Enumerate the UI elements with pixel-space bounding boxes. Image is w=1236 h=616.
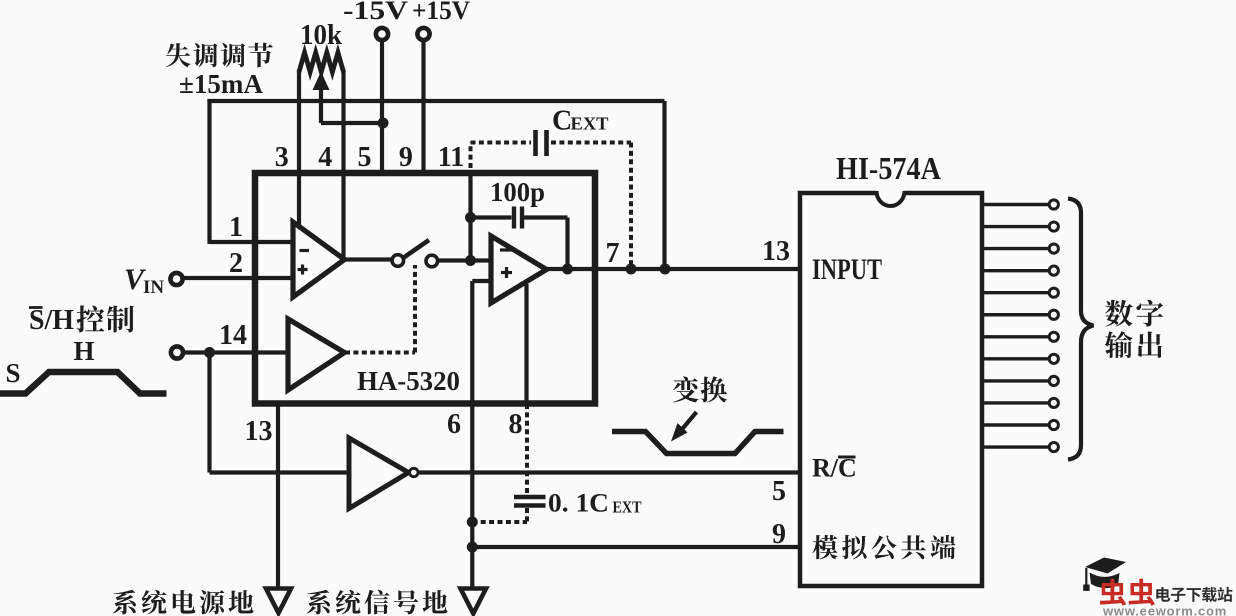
- label 系统电源地: [113, 590, 253, 615]
- pin label 1: [229, 212, 243, 243]
- wire inverter input: [210, 470, 350, 474]
- op-amp U2 hold amplifier: [491, 236, 547, 303]
- label -15V: [343, 0, 408, 25]
- svg-text:0. 1C: 0. 1C: [548, 489, 609, 518]
- svg-text:10k: 10k: [300, 20, 342, 51]
- wire U2 plus input: [472, 279, 491, 283]
- wire wiper to -15V: [321, 121, 383, 125]
- terminal S/H control: [171, 346, 183, 358]
- svg-text:11: 11: [438, 142, 464, 173]
- label HI-574A: [836, 150, 941, 186]
- pin label 9: [399, 142, 413, 173]
- waveform conversion pulse: [612, 432, 784, 454]
- pin label 13: [245, 416, 273, 447]
- svg-text:13: 13: [762, 236, 790, 267]
- ground system power: [266, 589, 291, 614]
- wire feedback right vertical: [662, 101, 666, 269]
- svg-text:www.eeworm.com: www.eeworm.com: [1102, 604, 1227, 616]
- label 100p: [490, 177, 545, 207]
- label offset-adjust 失调调节: [166, 43, 273, 68]
- wire pin6 vertical: [470, 281, 474, 587]
- wire +15V supply: [421, 41, 425, 173]
- svg-text:2: 2: [229, 248, 243, 279]
- label Vin: [124, 263, 164, 298]
- svg-text:6: 6: [447, 409, 461, 440]
- svg-text:13: 13: [245, 416, 273, 447]
- svg-text:7: 7: [606, 238, 620, 269]
- label H: [73, 336, 94, 366]
- wire pin3: [297, 70, 301, 227]
- watermark www.eeworm.com: [1102, 604, 1227, 616]
- pin label 2: [229, 248, 243, 279]
- wire pin11 internal: [468, 172, 472, 261]
- pin label 14: [219, 320, 247, 351]
- junction feedback output: [660, 264, 671, 275]
- pin label 4: [318, 142, 332, 173]
- terminal -15V: [376, 28, 388, 40]
- junction analog common: [467, 542, 478, 553]
- svg-text:1: 1: [229, 212, 243, 243]
- label Cext: [552, 106, 609, 137]
- label 模拟公共端: [812, 535, 955, 559]
- wire U2 output pin7 to INPUT: [546, 267, 800, 271]
- svg-text:9: 9: [399, 142, 413, 173]
- wire U1 output: [344, 257, 394, 261]
- waveform S/H control: [0, 372, 167, 394]
- label HA-5320: [357, 366, 460, 396]
- wire buffer output dashed: [345, 265, 415, 353]
- label 数字输出: [1105, 300, 1163, 358]
- svg-text:HA-5320: HA-5320: [357, 366, 460, 396]
- label ±15mA: [179, 69, 263, 99]
- wire pin2 Vin: [183, 276, 294, 280]
- wire pin8 internal: [524, 284, 528, 403]
- svg-text:HI-574A: HI-574A: [836, 150, 941, 186]
- label 0.1Cext: [548, 489, 642, 518]
- op-amp U1 input amplifier: [293, 222, 345, 297]
- svg-text:100p: 100p: [490, 177, 545, 207]
- svg-text:±15mA: ±15mA: [179, 69, 263, 99]
- label S: [5, 358, 20, 388]
- svg-text:4: 4: [318, 142, 332, 173]
- junction control node: [204, 347, 215, 358]
- junction wiper/-15V: [378, 118, 389, 129]
- watermark 虫虫: [1100, 579, 1155, 606]
- capacitor 100p: [471, 207, 568, 270]
- svg-text:3: 3: [275, 142, 289, 173]
- ADC HI-574A box: [800, 190, 982, 586]
- label 10k: [300, 20, 342, 51]
- arrow conversion: [671, 412, 697, 442]
- wire inverter output to R/C: [418, 470, 801, 474]
- svg-text:C: C: [552, 106, 572, 137]
- label 变换: [673, 376, 727, 402]
- ground system signal: [461, 589, 487, 614]
- svg-text:EXT: EXT: [613, 498, 643, 517]
- wire pin13 ground: [276, 404, 280, 588]
- svg-text:INPUT: INPUT: [812, 253, 882, 286]
- pin label 3: [275, 142, 289, 173]
- wire analog common: [472, 545, 800, 549]
- svg-text:9: 9: [772, 519, 786, 550]
- switch S1 sample-hold: [392, 240, 438, 267]
- pin label 11: [438, 142, 464, 173]
- wire switch to U2: [437, 258, 491, 262]
- wire pin14 control: [184, 350, 289, 354]
- junction switch node: [465, 255, 476, 266]
- wires digital output bits: [982, 200, 1058, 452]
- svg-text:H: H: [73, 336, 94, 366]
- pin label 6: [447, 409, 461, 440]
- svg-text:8: 8: [509, 409, 523, 440]
- junction 100p right: [562, 264, 573, 275]
- svg-text:EXT: EXT: [571, 114, 609, 134]
- svg-text:5: 5: [772, 476, 786, 507]
- svg-text:14: 14: [219, 320, 247, 351]
- capacitor 0.1Cext: [472, 404, 545, 522]
- svg-text:IN: IN: [143, 277, 164, 298]
- wire pin1 feedback: [210, 240, 294, 244]
- pin label 9 adc: [772, 519, 786, 550]
- svg-text:-15V: -15V: [343, 0, 408, 25]
- wire -15V supply: [380, 41, 384, 173]
- op-amp block HA-5320 box: [255, 173, 595, 404]
- resistor 10k potentiometer: [299, 53, 344, 73]
- label R/C bar: [812, 454, 857, 483]
- pin label 5: [358, 142, 372, 173]
- label S/H control: [29, 304, 134, 336]
- junction Cext output: [626, 264, 637, 275]
- label 系统信号地: [307, 590, 447, 615]
- terminal +15V: [417, 28, 429, 40]
- pin label 7: [606, 238, 620, 269]
- label +15V: [412, 0, 470, 25]
- wire feedback top: [207, 99, 664, 103]
- wire feedback left vertical: [207, 99, 211, 244]
- watermark graduation cap: [1083, 558, 1126, 591]
- pin label 13 adc: [762, 236, 790, 267]
- svg-text:5: 5: [358, 142, 372, 173]
- label INPUT: [812, 253, 882, 286]
- capacitor Cext dashed wire: [471, 130, 632, 267]
- terminal Vin: [170, 273, 182, 285]
- svg-text:+15V: +15V: [412, 0, 470, 25]
- pin label 8: [509, 409, 523, 440]
- op-amp U3 control buffer: [288, 319, 345, 390]
- brace digital outputs: [1068, 199, 1094, 460]
- op-amp U4 inverter: [349, 438, 418, 509]
- potentiometer wiper arrow: [313, 72, 330, 124]
- junction 0.1Cext: [467, 517, 478, 528]
- wire control vertical: [207, 353, 211, 473]
- junction 100p left: [465, 212, 476, 223]
- pin label 5 adc: [772, 476, 786, 507]
- svg-text:S: S: [5, 358, 20, 388]
- wire pin4: [341, 70, 345, 258]
- watermark 电子下载站: [1156, 587, 1232, 602]
